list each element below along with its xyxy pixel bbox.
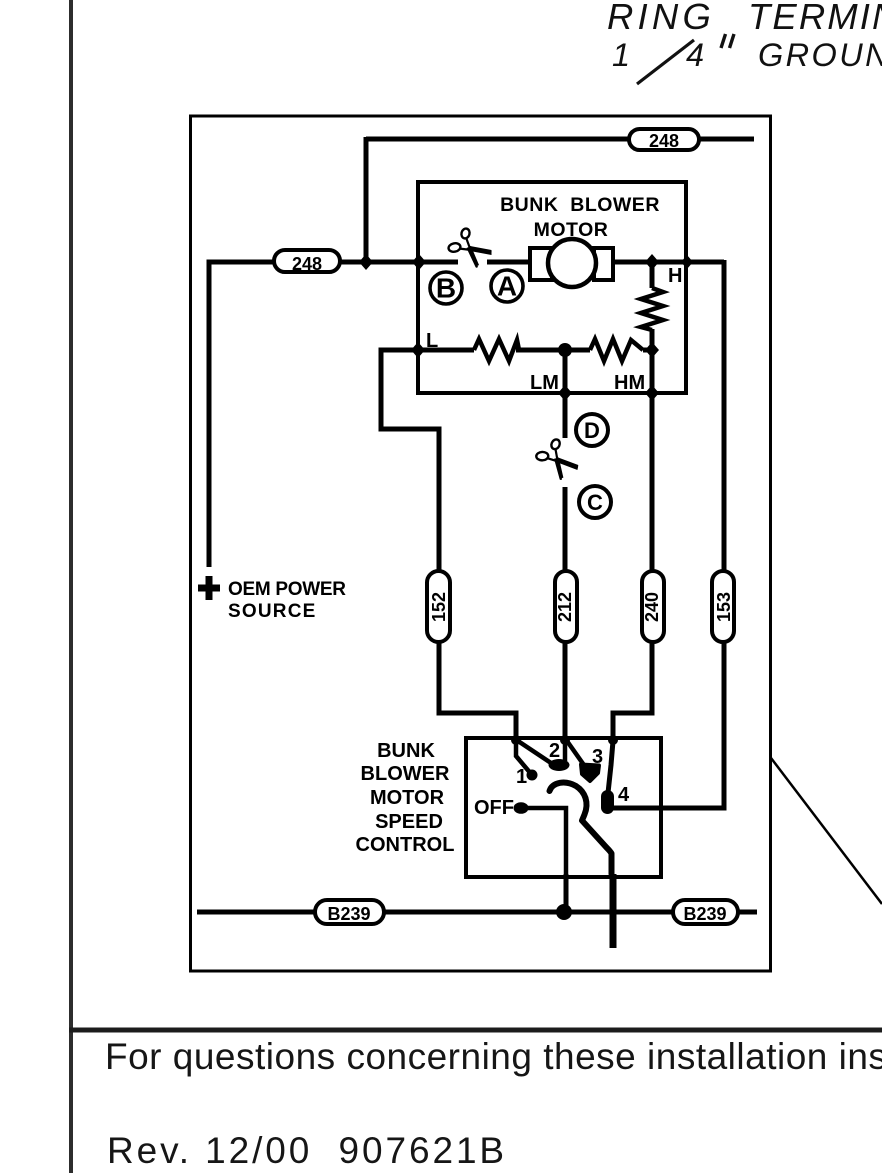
svg-text:153: 153 bbox=[714, 592, 734, 622]
svg-text:B239: B239 bbox=[327, 904, 370, 924]
wire wiper stub through B239 bbox=[610, 874, 617, 948]
svg-text:Rev. 12/00 907621B: Rev. 12/00 907621B bbox=[107, 1130, 507, 1171]
switch wire 212 entry to terminal 3 bbox=[567, 741, 586, 768]
svg-text:TERMINALS: TERMINALS bbox=[748, 0, 882, 37]
connector 240 bbox=[642, 571, 664, 642]
wire HM down to 240 bbox=[650, 350, 655, 572]
wire H resistor to lower junction bbox=[650, 329, 655, 350]
connector 212 bbox=[555, 571, 577, 642]
terminal 1 dot bbox=[527, 770, 538, 781]
svg-text:HM: HM bbox=[614, 372, 645, 394]
motor M1 body bbox=[548, 239, 596, 287]
bunk blower motor box bbox=[418, 182, 686, 393]
connector 153 bbox=[712, 571, 734, 642]
connector 152 bbox=[427, 571, 450, 642]
label BUNK BLOWER MOTOR SPEED CONTROL bbox=[356, 740, 455, 856]
svg-text:1: 1 bbox=[612, 37, 630, 73]
junction node at motor box right edge bbox=[681, 255, 693, 269]
wire 152 to speed control bbox=[439, 642, 516, 741]
label circle C bbox=[579, 486, 611, 518]
wire switch pole to B239 bbox=[564, 874, 569, 912]
junction node top-left of 248 bbox=[359, 254, 373, 270]
terminal 4 dot bbox=[601, 790, 614, 814]
connector B239 right bbox=[673, 900, 738, 924]
svg-text:248: 248 bbox=[292, 254, 322, 274]
svg-text:SOURCE: SOURCE bbox=[228, 601, 317, 622]
svg-text:1: 1 bbox=[516, 766, 527, 788]
junction node HM at box bottom bbox=[645, 385, 659, 401]
svg-text:BLOWER: BLOWER bbox=[361, 763, 450, 785]
motor brush left bbox=[530, 248, 552, 280]
svg-text:OEM POWER: OEM POWER bbox=[228, 579, 346, 600]
junction blob 240 entry bbox=[608, 735, 618, 745]
wire top 248 left segment bbox=[366, 137, 629, 142]
wire left 248 to OEM corner bbox=[209, 262, 274, 567]
switch wiper arc bbox=[550, 783, 612, 874]
wire top 248 right segment bbox=[699, 137, 754, 142]
label circle B bbox=[430, 272, 462, 304]
wire H junction to resistor bbox=[650, 262, 655, 288]
wire left 248 oval to cut B bbox=[340, 260, 458, 265]
wire between LM and HM resistors bbox=[516, 348, 590, 353]
svg-text:GROUND: GROUND bbox=[758, 37, 882, 73]
cut mark A scissors bbox=[448, 228, 492, 268]
diagram border frame bbox=[191, 116, 771, 971]
cut mark C scissors bbox=[532, 435, 582, 482]
callout diagonal line bbox=[771, 758, 882, 904]
switch wire 212 entry to terminal 2 bbox=[563, 739, 568, 761]
connector 248 left bbox=[274, 250, 340, 274]
junction blob 212 entry bbox=[560, 735, 570, 745]
switch wire to terminal 2 bbox=[518, 741, 551, 763]
junction node HM bbox=[645, 342, 659, 358]
svg-text:LM: LM bbox=[530, 372, 559, 394]
connector 248 top bbox=[629, 129, 699, 151]
wire motor to H corner bbox=[612, 260, 724, 265]
svg-text:248: 248 bbox=[649, 131, 679, 151]
svg-text:MOTOR: MOTOR bbox=[370, 787, 445, 809]
svg-text:C: C bbox=[587, 490, 603, 515]
connector B239 left bbox=[315, 900, 384, 924]
svg-text:B239: B239 bbox=[683, 904, 726, 924]
junction node B239 pole bbox=[556, 904, 572, 920]
speed control box bbox=[466, 738, 661, 877]
svg-text:H: H bbox=[668, 265, 682, 287]
resistor LM horizontal bbox=[474, 339, 519, 361]
svg-text:4: 4 bbox=[686, 37, 704, 73]
svg-text:4: 4 bbox=[618, 784, 630, 806]
terminal 2 dot bbox=[549, 759, 570, 771]
junction node at motor box left edge bbox=[412, 254, 426, 270]
svg-text:CONTROL: CONTROL bbox=[356, 834, 455, 856]
terminal 3 dot bbox=[581, 765, 599, 782]
wire cut C down to 212 bbox=[563, 487, 568, 572]
svg-text:RING: RING bbox=[607, 0, 715, 37]
OEM power source plus symbol bbox=[198, 576, 220, 600]
svg-text:A: A bbox=[497, 271, 517, 302]
svg-text:SPEED: SPEED bbox=[375, 811, 443, 833]
svg-text:152: 152 bbox=[429, 592, 449, 622]
svg-text:BUNK: BUNK bbox=[377, 740, 435, 762]
label circle D bbox=[576, 414, 608, 446]
junction node LM at box bottom bbox=[558, 385, 572, 401]
wire 212 to speed control bbox=[563, 642, 568, 741]
wire B239 left bbox=[197, 910, 315, 915]
wire L junction to resistor LM bbox=[418, 348, 474, 353]
svg-text:OFF: OFF bbox=[474, 797, 514, 819]
svg-text:BUNK BLOWER: BUNK BLOWER bbox=[500, 194, 660, 216]
svg-text:212: 212 bbox=[555, 592, 575, 622]
page left rule bbox=[69, 0, 73, 1173]
wire 240 to speed control bbox=[613, 642, 652, 741]
switch wire 240 entry to terminal 4 bbox=[608, 741, 613, 793]
wire L exit jog to 152 bbox=[381, 350, 439, 572]
svg-text:B: B bbox=[436, 273, 456, 304]
wire cut A to motor bbox=[487, 260, 532, 265]
terminal OFF dot bbox=[514, 802, 529, 814]
wire B239 right stub bbox=[738, 910, 757, 915]
svg-text:240: 240 bbox=[642, 592, 662, 622]
label circle A bbox=[491, 270, 523, 302]
wire vertical from top 248 to motor line bbox=[364, 137, 369, 262]
svg-text:L: L bbox=[426, 330, 438, 352]
junction blob 152 entry bbox=[511, 735, 521, 745]
title text RING TERMINALS bbox=[607, 0, 882, 84]
svg-text:D: D bbox=[584, 418, 600, 443]
wire 153 vertical lower to terminal 4 row bbox=[608, 642, 724, 808]
switch wire to terminal 1 bbox=[516, 739, 532, 775]
wire B239 middle bbox=[384, 910, 673, 915]
switch wire OFF to pole bbox=[521, 808, 566, 876]
svg-text:2: 2 bbox=[549, 740, 560, 762]
page bottom rule bbox=[69, 1028, 882, 1033]
wire HM resistor to H lower junction bbox=[643, 348, 654, 353]
junction node L bbox=[411, 342, 425, 358]
wire 153 vertical upper bbox=[722, 260, 727, 572]
wire LM down to cut D bbox=[563, 350, 568, 438]
resistor H vertical bbox=[641, 288, 663, 330]
svg-text:For questions concerning these: For questions concerning these installat… bbox=[105, 1036, 882, 1077]
junction node H bbox=[645, 254, 659, 270]
motor brush right bbox=[594, 248, 613, 280]
junction node LM bbox=[558, 343, 572, 357]
svg-text:3: 3 bbox=[592, 746, 603, 768]
resistor HM horizontal bbox=[590, 339, 643, 361]
